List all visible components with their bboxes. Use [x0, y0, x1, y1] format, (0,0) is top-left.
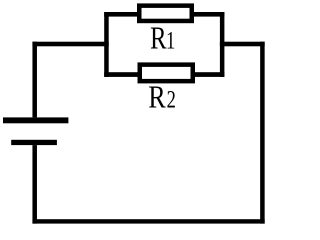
svg-text:1: 1 [166, 26, 175, 54]
wire: left vertical lower segment (battery bottom plate to bottom wire) [32, 145, 37, 224]
wire: right vertical [260, 42, 265, 224]
label R2 [148, 80, 175, 115]
node: right junction bar of parallel combination [220, 12, 225, 77]
resistor R2 body [140, 65, 193, 82]
svg-text:R: R [148, 80, 166, 115]
wire: middle-right horizontal (parallel network to right vertical) [220, 42, 265, 47]
battery B1 negative plate (short) [11, 140, 57, 145]
battery B1 positive plate (long) [3, 117, 68, 123]
svg-text:R: R [150, 22, 166, 57]
wire: bottom horizontal [32, 219, 264, 223]
resistor R1 body [139, 6, 192, 21]
wire: middle-left horizontal (battery positive lead to parallel network) [32, 42, 108, 47]
wire: bottom branch through R2 [104, 72, 224, 77]
node: left junction bar of parallel combination [104, 12, 109, 77]
label R1 [150, 22, 175, 57]
wire: left vertical upper segment (to battery top plate) [32, 42, 37, 118]
svg-text:2: 2 [167, 85, 176, 113]
wire: top branch through R1 [104, 12, 224, 17]
